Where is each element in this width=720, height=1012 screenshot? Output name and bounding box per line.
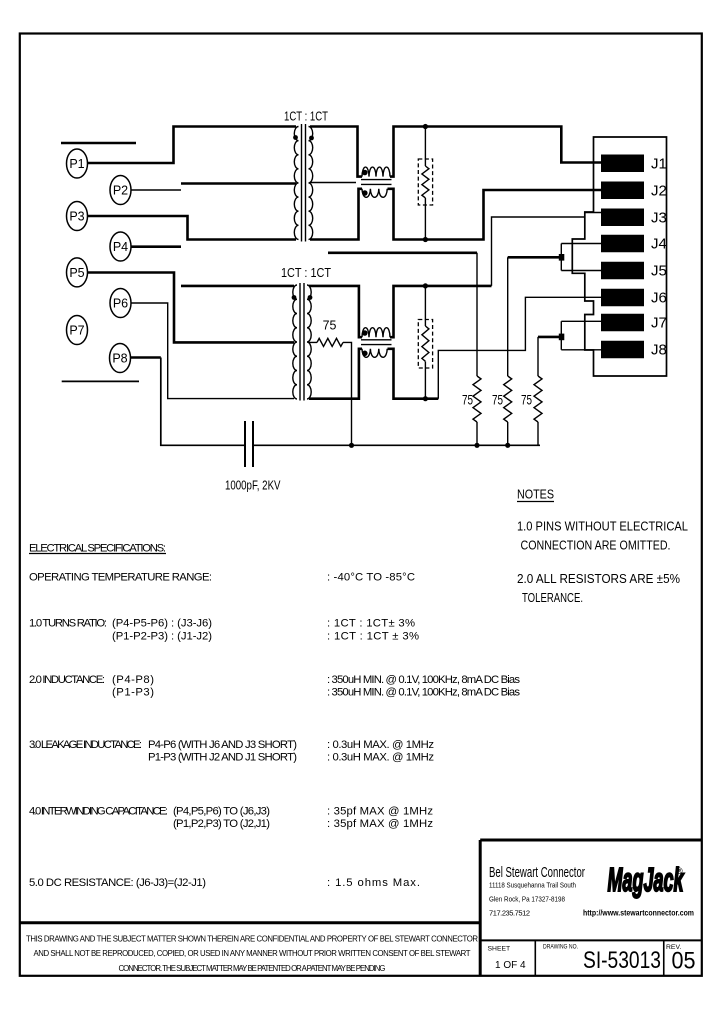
svg-text:75: 75 xyxy=(521,392,532,408)
svg-text:(P4-P5-P6) : (J3-J6): (P4-P5-P6) : (J3-J6) xyxy=(112,618,212,630)
svg-text:P4: P4 xyxy=(113,240,128,254)
svg-text:: -40°C TO -85°C: : -40°C TO -85°C xyxy=(327,572,415,584)
svg-text:4.0 INTERWINDING CAPACITANCE:: 4.0 INTERWINDING CAPACITANCE: xyxy=(29,806,168,818)
svg-text:P5: P5 xyxy=(69,266,84,280)
svg-text:(P1-P3): (P1-P3) xyxy=(112,687,154,699)
svg-text:J7: J7 xyxy=(651,315,667,332)
svg-text:CONNECTION ARE OMITTED.: CONNECTION ARE OMITTED. xyxy=(521,539,671,553)
svg-text:: 1CT : 1CT ± 3%: : 1CT : 1CT ± 3% xyxy=(327,631,419,643)
svg-text:1CT : 1CT: 1CT : 1CT xyxy=(281,265,331,280)
svg-text:(P1-P2-P3) : (J1-J2): (P1-P2-P3) : (J1-J2) xyxy=(112,631,212,643)
svg-text:: 35pf MAX @ 1MHz: : 35pf MAX @ 1MHz xyxy=(327,818,433,830)
svg-text:75: 75 xyxy=(323,317,337,332)
svg-text:1000pF, 2KV: 1000pF, 2KV xyxy=(225,479,281,493)
svg-text:11118 Susquehanna Trail South: 11118 Susquehanna Trail South xyxy=(489,881,576,890)
svg-text:ELECTRICAL SPECIFICATIONS:: ELECTRICAL SPECIFICATIONS: xyxy=(29,543,166,555)
svg-text:Bel Stewart Connector: Bel Stewart Connector xyxy=(489,865,585,881)
svg-text:P7: P7 xyxy=(69,324,84,338)
svg-text:1 OF 4: 1 OF 4 xyxy=(495,960,526,971)
svg-text:OPERATING TEMPERATURE RANGE:: OPERATING TEMPERATURE RANGE: xyxy=(29,572,212,584)
svg-text:: 0.3uH MAX. @ 1MHz: : 0.3uH MAX. @ 1MHz xyxy=(327,739,434,751)
svg-text:®: ® xyxy=(676,866,683,876)
svg-text:P2: P2 xyxy=(113,184,128,198)
svg-text:(P4-P8): (P4-P8) xyxy=(112,674,154,686)
svg-text:: 0.3uH MAX. @ 1MHz: : 0.3uH MAX. @ 1MHz xyxy=(327,752,434,764)
svg-text:P3: P3 xyxy=(69,210,84,224)
svg-text:2.0 ALL RESISTORS ARE ±5%: 2.0 ALL RESISTORS ARE ±5% xyxy=(517,572,680,586)
svg-text:P6: P6 xyxy=(113,297,128,311)
svg-text:P8: P8 xyxy=(112,352,127,366)
svg-text:THIS DRAWING AND THE SUBJECT M: THIS DRAWING AND THE SUBJECT MATTER SHOW… xyxy=(26,935,478,944)
svg-text:SI-53013: SI-53013 xyxy=(583,947,661,974)
svg-text:1CT : 1CT: 1CT : 1CT xyxy=(284,109,328,124)
svg-text:(P1,P2,P3) TO (J2,J1): (P1,P2,P3) TO (J2,J1) xyxy=(173,818,270,830)
svg-text:J1: J1 xyxy=(651,156,667,173)
svg-text:J3: J3 xyxy=(651,210,667,227)
svg-text:: 1CT : 1CT± 3%: : 1CT : 1CT± 3% xyxy=(327,618,415,630)
svg-text:75: 75 xyxy=(492,392,503,408)
svg-text:P1-P3 (WITH J2 AND J1 SHORT): P1-P3 (WITH J2 AND J1 SHORT) xyxy=(148,752,297,764)
svg-text:3.0 LEAKAGE INDUCTANCE:: 3.0 LEAKAGE INDUCTANCE: xyxy=(29,739,142,751)
svg-text:CONNECTOR. THE SUBJECT MATTER: CONNECTOR. THE SUBJECT MATTER MAY BE PAT… xyxy=(119,964,386,973)
svg-text:1.0 PINS WITHOUT ELECTRICAL: 1.0 PINS WITHOUT ELECTRICAL xyxy=(517,520,688,534)
svg-text:5.0 DC RESISTANCE: (J6-J3)=(J: 5.0 DC RESISTANCE: (J6-J3)=(J2-J1) xyxy=(29,877,206,889)
svg-text:SHEET: SHEET xyxy=(488,946,511,953)
svg-text:AND SHALL NOT BE REPRODUCED, C: AND SHALL NOT BE REPRODUCED, COPIED, OR … xyxy=(34,949,471,958)
svg-text:: 1.5 ohms Max.: : 1.5 ohms Max. xyxy=(327,877,420,889)
svg-text:2.0 INDUCTANCE:: 2.0 INDUCTANCE: xyxy=(29,674,105,686)
svg-text:717.235.7512: 717.235.7512 xyxy=(489,909,530,918)
svg-text:75: 75 xyxy=(462,392,473,408)
svg-text:J6: J6 xyxy=(651,290,667,307)
svg-text:J4: J4 xyxy=(651,236,667,253)
svg-text:P1: P1 xyxy=(69,157,84,171)
svg-text:MagJack: MagJack xyxy=(608,861,685,898)
svg-text:TOLERANCE.: TOLERANCE. xyxy=(522,591,583,605)
svg-text:: 350uH MIN. @ 0.1V, 100KHz,: : 350uH MIN. @ 0.1V, 100KHz, 8mA DC Bias xyxy=(327,674,520,686)
svg-text:05: 05 xyxy=(672,948,696,975)
svg-text:NOTES: NOTES xyxy=(517,488,554,502)
svg-text:J2: J2 xyxy=(651,183,667,200)
svg-text:: 350uH MIN. @ 0.1V, 100KHz,: : 350uH MIN. @ 0.1V, 100KHz, 8mA DC Bias xyxy=(327,687,520,699)
svg-text:http://www.stewartconnector.co: http://www.stewartconnector.com xyxy=(583,909,694,918)
svg-text:J8: J8 xyxy=(651,342,667,359)
svg-text:J5: J5 xyxy=(651,263,667,280)
svg-text:(P4,P5,P6) TO (J6,J3): (P4,P5,P6) TO (J6,J3) xyxy=(173,806,270,818)
svg-text:DRAWING NO.: DRAWING NO. xyxy=(543,944,578,951)
svg-text:1.0 TURNS RATIO:: 1.0 TURNS RATIO: xyxy=(29,618,107,630)
svg-text:Glen Rock, Pa 17327-8198: Glen Rock, Pa 17327-8198 xyxy=(489,895,565,904)
svg-text:: 35pf MAX @ 1MHz: : 35pf MAX @ 1MHz xyxy=(327,806,433,818)
svg-text:P4-P6 (WITH J6 AND J3 SHORT): P4-P6 (WITH J6 AND J3 SHORT) xyxy=(148,739,297,751)
